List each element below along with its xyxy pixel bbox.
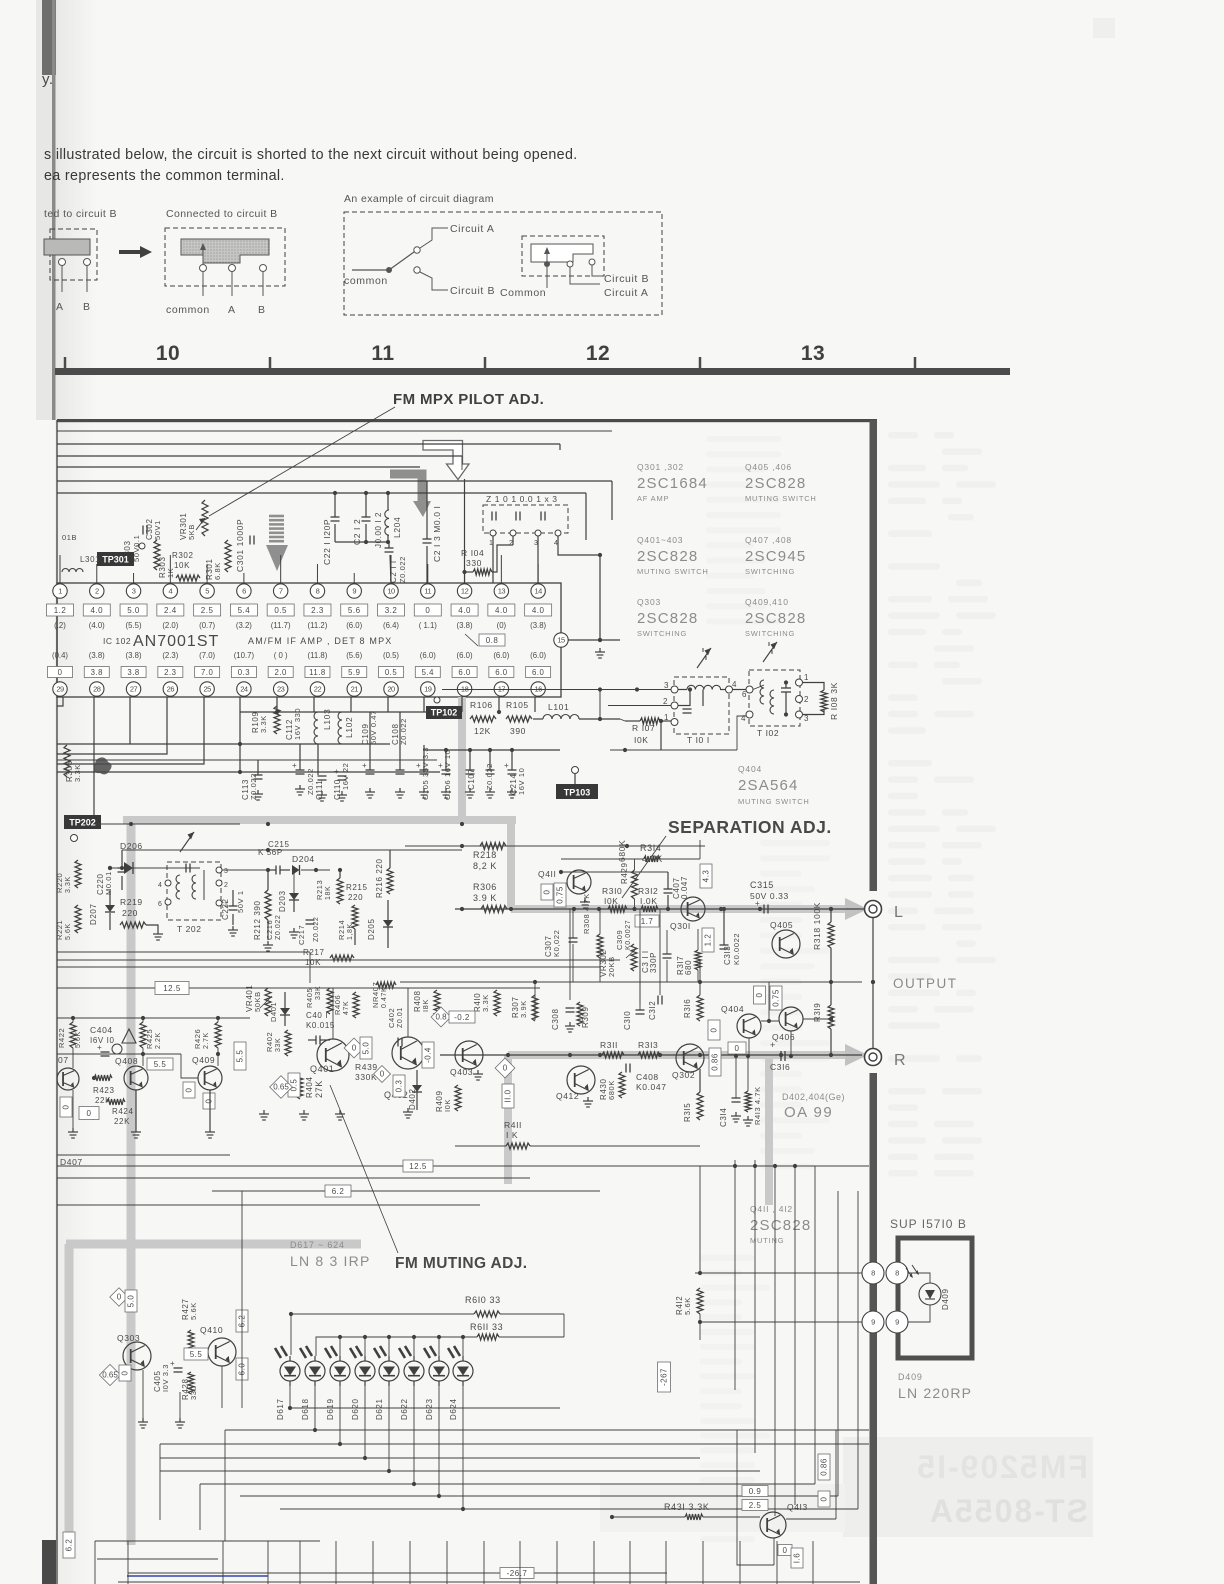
svg-text:R423: R423 [93,1086,115,1095]
FM MUTING ADJ label [395,1255,527,1272]
svg-text:T I02: T I02 [757,728,779,738]
svg-text:Z0.022: Z0.022 [398,556,407,583]
svg-text:5.0: 5.0 [127,606,140,615]
svg-text:TP102: TP102 [431,708,458,718]
resistor R431 [664,1502,709,1520]
svg-text:0: 0 [503,1064,508,1073]
wire pin20 down [387,697,389,712]
svg-text:Q404: Q404 [738,764,762,774]
svg-text:20: 20 [387,685,395,694]
svg-text:AN7001ST: AN7001ST [133,633,219,650]
IC voltage row 4 [52,651,547,660]
example switch common [344,223,495,297]
wire pin23 down [275,697,279,714]
wire y1054 [57,1054,198,1078]
connector pin 9 left [862,1311,884,1333]
wire pin24 down [238,697,242,774]
svg-text:0.8: 0.8 [435,1013,447,1022]
svg-text:R406: R406 [333,995,342,1015]
svg-text:(3.2): (3.2) [236,621,252,630]
wire pin18 stub [461,697,463,712]
svg-text:R214: R214 [337,920,346,940]
resistor R402 [265,1030,291,1056]
svg-text:(6.0): (6.0) [346,621,362,630]
svg-text:6.8K: 6.8K [213,562,222,580]
svg-text:(0.4): (0.4) [52,651,68,660]
svg-text:MUTING SWITCH: MUTING SWITCH [738,797,810,806]
test point TP202 [64,815,101,842]
svg-text:0.47K: 0.47K [381,987,388,1008]
IC bottom pin row [53,682,546,696]
svg-text:C309: C309 [615,930,624,950]
svg-text:R3II: R3II [600,1040,618,1050]
separation pointer line [622,836,666,898]
wire y750 row [424,748,560,752]
wire pin19 down [423,697,425,712]
svg-text:+: + [755,899,760,908]
svg-text:50KB: 50KB [253,991,262,1012]
resistor R307 [511,995,538,1021]
test point TP103 [556,767,598,800]
wire y1166 [57,1160,869,1172]
svg-text:TP202: TP202 [69,818,96,828]
svg-text:K0.0027: K0.0027 [625,920,632,950]
capacitor Z0.022 [485,750,495,798]
SEPARATION ADJ label [668,817,832,837]
svg-text:SEPARATION ADJ.: SEPARATION ADJ. [668,817,832,837]
transistor Q411 [538,869,591,908]
wire y1541 [95,1541,320,1584]
svg-text:T I0 I: T I0 I [687,735,710,745]
svg-text:K 56P: K 56P [258,848,283,857]
values Q404 right [754,986,783,1010]
svg-text:K0.047: K0.047 [636,1082,667,1092]
svg-text:2SC828: 2SC828 [745,610,806,627]
svg-text:2.3: 2.3 [164,668,176,677]
svg-text:Q301 ,302: Q301 ,302 [637,462,684,472]
resistor R425 [140,1018,162,1066]
transistor Q408 [92,1056,173,1105]
inductor L204 [374,491,402,548]
svg-text:R217: R217 [303,948,325,957]
svg-text:13: 13 [801,342,825,365]
svg-text:L101: L101 [548,702,569,712]
svg-text:R429: R429 [620,862,629,884]
svg-text:47K: 47K [343,1001,350,1015]
svg-text:LN 220RP: LN 220RP [898,1385,972,1401]
svg-text:+: + [416,761,421,770]
resistor R426 [193,1018,221,1066]
resistor R314 [561,840,700,864]
svg-text:0: 0 [87,1109,92,1118]
resistor R219 [120,897,163,940]
svg-text:C216: C216 [265,920,274,940]
svg-text:0.75: 0.75 [772,989,781,1007]
svg-text:2.5: 2.5 [749,1501,762,1510]
svg-text:11.8: 11.8 [309,668,326,677]
svg-text:20KB: 20KB [607,956,616,977]
resistor R221 [55,905,81,940]
wire q410 col [222,1191,242,1408]
svg-text:I0K: I0K [634,735,649,745]
svg-text:R302: R302 [172,551,194,560]
svg-text:10: 10 [387,587,395,596]
wire bus y952 [57,952,310,983]
svg-text:0: 0 [380,1070,385,1079]
svg-text:9: 9 [895,1318,899,1327]
svg-text:D618: D618 [301,1398,310,1420]
wire bus top5 [57,493,586,540]
wire y690 to T101 [442,687,671,691]
svg-text:R221: R221 [55,920,64,940]
test point TP301 [97,543,145,566]
wire bus y960 [57,959,620,961]
resistor R410 [473,990,500,1016]
svg-text:3.3K: 3.3K [73,764,82,782]
wire y1191 [212,1185,600,1197]
svg-text:R216 220: R216 220 [375,859,384,899]
svg-text:+: + [438,761,443,770]
wire bus top1 [57,444,560,450]
svg-text:220: 220 [122,908,138,918]
svg-text:10: 10 [156,342,180,365]
svg-text:C40 I: C40 I [306,1011,328,1020]
svg-text:7.0: 7.0 [201,668,214,677]
resistor NR407 [371,982,396,1008]
transistor list Q404 [738,764,810,806]
svg-text:680K: 680K [607,1080,616,1100]
svg-text:SWITCHING: SWITCHING [637,629,687,638]
blue pen line [127,1575,268,1577]
label LN220RP [898,1372,972,1401]
wire pin29 left [57,697,63,706]
transistor Q409 [183,1042,246,1109]
svg-text:Q409,410: Q409,410 [745,597,789,607]
svg-text:+: + [292,761,297,770]
ruler number 13 [801,342,825,365]
svg-text:D620: D620 [351,1398,360,1420]
svg-text:LN 8 3 IRP: LN 8 3 IRP [290,1253,370,1269]
ink smudge [94,757,112,774]
svg-text:12K: 12K [474,726,491,736]
svg-text:(6.0): (6.0) [457,651,473,660]
svg-text:27K: 27K [314,1080,324,1098]
IC pin stubs top [60,555,538,583]
svg-text:5.4: 5.4 [238,606,251,615]
coil L103 [314,709,332,775]
svg-text:3.8: 3.8 [91,668,103,677]
svg-text:C2 I 2: C2 I 2 [352,519,362,545]
wire y712 row [240,711,437,713]
junction dots y1166 bottom [733,1164,797,1168]
capacitor C108 [391,712,408,798]
schematic frame left border [56,420,58,1584]
ground T202 area [289,928,299,938]
svg-text:R404: R404 [305,1076,314,1098]
resistor R424 [79,1099,134,1126]
wire y1205 [57,1204,480,1206]
svg-text:R3I2: R3I2 [638,886,658,896]
wire y846 [405,844,705,848]
bottom vertical wires [128,1541,813,1584]
svg-text:2SC828: 2SC828 [637,548,698,565]
wire bus y1484 [200,1483,815,1485]
svg-text:(2.0): (2.0) [162,621,178,630]
svg-text:0: 0 [735,1044,740,1053]
wire to pin9 [698,1320,862,1324]
left bottom verticals [160,1430,225,1541]
svg-text:680K: 680K [617,840,627,862]
capacitor C215 [258,840,290,875]
ruler ticks [65,357,915,368]
LED D617 [275,1346,300,1420]
values 6.2 6.0 [236,1310,248,1380]
wire bus y1444 [160,1443,869,1445]
resistor R430 [599,1072,625,1100]
svg-text:16V 330: 16V 330 [293,708,302,740]
svg-text:0.3: 0.3 [238,668,250,677]
wire Z101 feed [461,456,463,470]
IFT T202 [158,862,229,934]
wire C221 bottom [335,540,390,544]
label Q411 412 list [750,1204,811,1245]
IC pin 15 [554,633,568,647]
svg-text:Q408: Q408 [115,1056,138,1066]
svg-text:R3I5: R3I5 [683,1103,692,1122]
svg-text:(11.8): (11.8) [308,651,328,660]
svg-text:s illustrated below, the cir: s illustrated below, the circuit is shor… [44,147,578,163]
svg-text:1.2: 1.2 [704,934,713,947]
svg-text:3.9 K: 3.9 K [473,893,497,903]
svg-text:Q403: Q403 [450,1067,473,1077]
schematic right border bar upper [870,420,878,891]
svg-text:22K: 22K [114,1117,130,1126]
resistor R409 [435,1085,461,1112]
svg-text:D617: D617 [276,1398,285,1420]
grounds Q408 Q409 [131,1090,215,1138]
svg-text:MUTING SWITCH: MUTING SWITCH [745,494,817,503]
wire pin26 down [57,697,167,754]
resistor R311 [600,1040,624,1058]
svg-text:2SC1684: 2SC1684 [637,475,708,492]
svg-text:(.2): (.2) [54,621,66,630]
resistor R308 [582,893,603,982]
wire pins to led [908,1273,930,1322]
svg-text:I0K: I0K [443,1099,452,1112]
value -267 vertical [658,1362,671,1392]
example diagram label [166,208,278,220]
LED D619 [325,1346,350,1420]
svg-text:ea represents the common term: ea represents the common terminal. [44,168,285,184]
junction dots R line [506,1053,783,1057]
capacitor C312 [640,996,662,1021]
capacitor C221 [322,491,340,565]
resistor R109 [251,706,280,734]
svg-text:5.6: 5.6 [348,606,361,615]
IFT T102 [741,670,809,738]
svg-text:C404: C404 [90,1025,113,1035]
svg-text:0: 0 [755,992,764,997]
svg-text:Circuit B: Circuit B [604,273,649,285]
svg-text:5KB: 5KB [187,524,196,540]
svg-text:R3I3: R3I3 [638,1040,658,1050]
svg-text:330P: 330P [649,952,658,973]
svg-text:R106: R106 [470,700,493,710]
svg-text:C3I6: C3I6 [770,1062,790,1072]
wire between terminals [871,918,875,1048]
capacitor C308 [551,1008,575,1032]
svg-text:Circuit B: Circuit B [450,285,495,297]
resistor R427 [181,1298,198,1354]
resistor R428 [181,1372,198,1400]
svg-text:0: 0 [121,1370,130,1375]
resistor R107 [625,718,671,750]
svg-text:2: 2 [804,695,809,704]
potentiometer VR301 [179,500,208,540]
diode D207 [89,890,115,930]
wire bus y760 [57,759,437,761]
svg-text:R6II 33: R6II 33 [470,1322,503,1332]
svg-text:3: 3 [664,681,669,690]
svg-text:Q4II , 4I2: Q4II , 4I2 [750,1204,793,1214]
diode D206 [108,841,200,874]
wire pin28 down [92,697,96,822]
svg-text:28: 28 [93,685,101,694]
wire bus y1509 [280,1508,858,1510]
wire to L terminal [862,908,866,910]
svg-text:4: 4 [158,882,163,889]
transistor Q413 [760,1430,836,1538]
resistor R306 [473,882,507,913]
header text fragment [42,71,54,88]
svg-text:FM MPX PILOT ADJ.: FM MPX PILOT ADJ. [393,391,544,408]
svg-text:5.0: 5.0 [362,1042,371,1055]
svg-text:27: 27 [130,685,138,694]
svg-text:5: 5 [205,587,209,596]
svg-text:Q404: Q404 [721,1004,744,1014]
wire y1018 [57,1016,250,1020]
svg-text:5.6K: 5.6K [683,1297,692,1315]
wire bus y1496 [240,1495,838,1497]
wire pin27 down [57,697,130,744]
resistor R411 [455,1120,700,1149]
capacitor C105 [416,745,430,800]
svg-text:Q4II: Q4II [538,869,556,879]
schematic frame top border [57,419,877,422]
svg-text:R3I4: R3I4 [640,843,661,853]
svg-text:R6I0 33: R6I0 33 [465,1295,501,1305]
svg-text:0.65: 0.65 [273,1083,289,1092]
wire bus y744 right [130,743,390,745]
transistor Q404b [721,1004,761,1038]
LED anode stubs [291,1314,465,1356]
svg-text:Q405 ,406: Q405 ,406 [745,462,792,472]
svg-text:R318 100K: R318 100K [812,902,822,950]
svg-text:R405: R405 [305,988,314,1008]
label L [894,904,904,921]
transistor list Q407 ,408 [745,535,806,576]
terminal R [865,1049,882,1066]
svg-text:I6V I0: I6V I0 [90,1036,115,1045]
FM MPX PILOT ADJ label [393,391,544,408]
hollow elbow arrow [423,441,469,480]
svg-text:1: 1 [664,713,669,722]
capacitor C303 [123,526,147,563]
svg-text:4.3: 4.3 [702,870,711,883]
resistor R610 [289,1295,564,1317]
svg-text:4.0: 4.0 [458,606,471,615]
svg-text:D617 ~ 624: D617 ~ 624 [290,1240,345,1250]
svg-text:C308: C308 [551,1008,560,1030]
svg-text:R43I 3.3K: R43I 3.3K [664,1502,709,1512]
wire y850 [122,849,462,851]
svg-text:0.86: 0.86 [711,1053,720,1071]
wire pin17 down [497,697,501,714]
example diagram label (cut) [44,208,117,220]
capacitor C307 [544,909,578,982]
svg-text:II.0: II.0 [504,1089,513,1102]
svg-text:4.0: 4.0 [90,606,103,615]
svg-text:R I08 3K: R I08 3K [829,682,839,720]
diode D401 [269,992,290,1026]
svg-text:3: 3 [132,587,136,596]
svg-text:TP301: TP301 [102,555,129,565]
resistor R422 [57,1018,82,1068]
junction dots misc [108,638,602,872]
resistor R302 [172,551,200,581]
svg-text:1: 1 [804,673,809,682]
LED D618 [300,1346,325,1420]
Z101 wires [493,536,602,641]
ruler bar [55,368,1010,375]
capacitor C107 [465,750,476,798]
capacitor C222 [221,890,238,936]
svg-text:An example of circuit diagram: An example of circuit diagram [344,193,494,205]
wire bus top4 [57,481,612,520]
comb verticals [535,909,700,1020]
svg-text:2SC828: 2SC828 [750,1217,811,1234]
svg-text:10K: 10K [305,958,321,967]
resistor R212 [253,870,273,951]
svg-text:4: 4 [741,714,746,723]
svg-text:R105: R105 [506,700,529,710]
svg-text:(5.5): (5.5) [126,621,142,630]
svg-text:IC 102: IC 102 [103,636,131,646]
svg-text:I.6: I.6 [793,1553,802,1563]
svg-text:12.5: 12.5 [163,984,181,993]
svg-text:13: 13 [498,587,506,596]
capacitor C404 [90,1025,115,1056]
capacitor C313 [720,907,742,965]
values Q413 bottom [778,1545,803,1569]
svg-text:5.5: 5.5 [154,1060,167,1069]
grey trace horizontal y824 [123,816,516,824]
svg-text:R: R [894,1052,906,1069]
svg-text:6.0: 6.0 [458,668,471,677]
svg-text:0.65: 0.65 [102,1371,118,1380]
ruler number 11 [371,342,394,365]
svg-text:R218: R218 [473,850,497,860]
svg-text:D624: D624 [449,1398,458,1420]
svg-text:29: 29 [56,685,64,694]
svg-text:C107: C107 [467,768,476,790]
example circuit dashed frame [344,212,662,315]
header line 2 [44,168,285,184]
resistor R412 [675,1271,703,1315]
svg-text:R424: R424 [112,1107,134,1116]
transistor list Q401~403 [637,535,709,576]
svg-text:3.8: 3.8 [127,668,139,677]
